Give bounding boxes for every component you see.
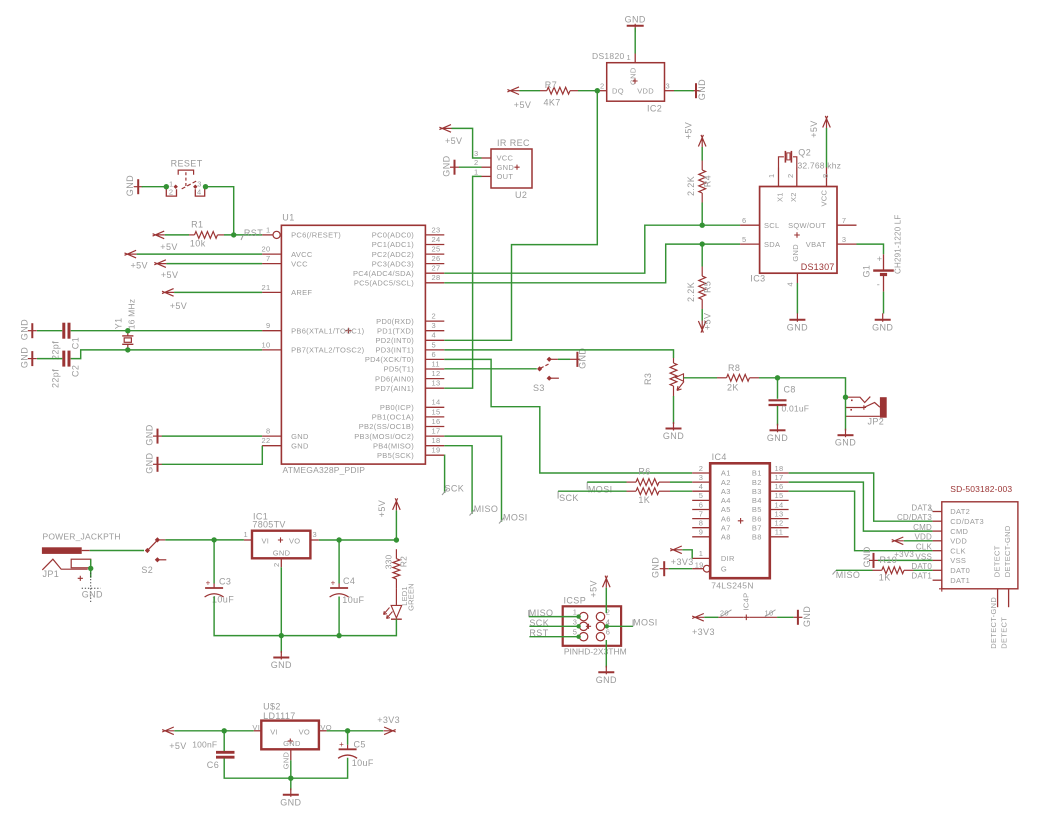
svg-text:11: 11 [775, 528, 783, 537]
svg-text:B2: B2 [752, 478, 762, 487]
svg-text:1: 1 [767, 174, 776, 178]
svg-text:PB3(MOSI/OC2): PB3(MOSI/OC2) [354, 432, 414, 441]
svg-text:2: 2 [474, 158, 478, 167]
power jack JP1 POWER_JACKPTH [42, 532, 121, 579]
junction reset right [203, 184, 208, 189]
svg-text:6: 6 [742, 216, 746, 225]
svg-text:PC3(ADC3): PC3(ADC3) [372, 259, 414, 268]
svg-text:SCL: SCL [764, 221, 780, 230]
wire +5V to VCC [166, 263, 262, 265]
IC4 pin 11 B8 stub [752, 528, 789, 542]
svg-text:GND: GND [872, 322, 893, 332]
svg-text:+3V3: +3V3 [692, 627, 715, 637]
svg-text:6: 6 [606, 628, 610, 637]
svg-text:GND: GND [145, 424, 155, 445]
wire U1 pin28 SCL net [444, 244, 702, 283]
wire gnd to IC4 G [669, 568, 693, 570]
svg-text:12: 12 [775, 519, 784, 528]
+5V supply arrow at AREF pin21 [162, 289, 187, 311]
U1 pin 17 PB3(MOSI/OC2) stub [354, 427, 444, 441]
pushbutton RESET [166, 158, 204, 196]
svg-text:18: 18 [432, 436, 441, 445]
wire rail to gnd [290, 778, 292, 790]
svg-text:C8: C8 [784, 385, 796, 395]
wire to IC3 SCL pin [702, 224, 740, 226]
U1 pin 24 PC1(ADC1) stub [372, 235, 445, 249]
svg-text:CMD: CMD [950, 527, 968, 536]
ICSP pad 1 [573, 608, 588, 621]
resistor network R6 1K lower [627, 488, 671, 505]
svg-text:A4: A4 [721, 496, 731, 505]
svg-text:SD-503182-003: SD-503182-003 [950, 484, 1012, 494]
net label SCK [442, 484, 464, 496]
wire IC4 B2 to SD CMD [789, 482, 933, 531]
wire R6a to IC4 A2 [670, 481, 692, 483]
svg-text:+5V: +5V [170, 301, 187, 311]
svg-text:VO: VO [299, 728, 310, 737]
svg-text:7: 7 [266, 254, 270, 263]
svg-text:+: + [877, 254, 882, 264]
wire C8 to gnd [777, 406, 779, 426]
U1 pin 22 GND stub [262, 436, 309, 450]
IC4 pin 7 A6 stub [692, 509, 730, 523]
svg-text:AVCC: AVCC [291, 250, 313, 259]
svg-text:2.2K: 2.2K [686, 282, 696, 302]
ICSP pad 2 [596, 608, 610, 621]
svg-text:R10: R10 [880, 555, 898, 565]
svg-text:CMD: CMD [913, 523, 932, 532]
svg-text:PB6(XTAL1/TOSC1): PB6(XTAL1/TOSC1) [291, 326, 364, 335]
resistor R4 2.2K [686, 147, 713, 203]
junction at C3 [211, 537, 216, 542]
IC4 pin 18 B1 stub [752, 464, 789, 478]
wire reset switch to RST net [206, 187, 234, 235]
switch S2 [141, 537, 166, 575]
ground symbol below C8 [767, 424, 788, 443]
+5V supply arrow at U$2 [162, 727, 186, 751]
IC4 pin 17 B2 stub [752, 473, 789, 487]
svg-text:ICSP: ICSP [564, 596, 587, 606]
svg-text:DETECT: DETECT [1000, 617, 1009, 649]
net label MISO at ICSP [529, 608, 554, 618]
svg-text:22pf: 22pf [51, 369, 61, 388]
svg-text:+5V: +5V [377, 500, 387, 517]
temperature sensor IC2 DS1820 body [592, 51, 674, 114]
svg-text:MOSI: MOSI [503, 513, 528, 523]
U1 pin 10 PB7(XTAL2/TOSC2) stub [262, 340, 365, 354]
svg-text:C3: C3 [219, 577, 231, 587]
wire +5V to IR VCC [452, 128, 482, 158]
svg-text:+5V: +5V [131, 261, 148, 271]
svg-text:CD/DAT3: CD/DAT3 [897, 513, 932, 522]
+5V supply arrow above R2 [377, 498, 400, 540]
+3V3 supply arrow at IC4P [692, 614, 715, 638]
svg-text:2: 2 [699, 464, 703, 473]
wire MOSI to R6a [587, 481, 626, 483]
SD pin DAT1 stub [933, 576, 971, 585]
U1 pin 18 PB4(MISO) stub [373, 436, 444, 450]
wire rail to gnd symbol [280, 636, 282, 653]
svg-text:3: 3 [699, 473, 703, 482]
svg-text:1: 1 [573, 608, 577, 617]
ICSP pad 4 [596, 617, 610, 630]
svg-text:G1: G1 [862, 265, 872, 278]
svg-text:5: 5 [432, 340, 436, 349]
svg-text:JP1: JP1 [43, 569, 60, 579]
svg-text:1: 1 [627, 53, 631, 62]
svg-text:8: 8 [266, 427, 270, 436]
svg-text:DAT2: DAT2 [911, 503, 932, 512]
svg-text:GND: GND [697, 79, 707, 100]
U1 pin 8 GND stub [262, 427, 309, 441]
IC4P power pins symbol [718, 593, 777, 620]
svg-text:+5V: +5V [160, 242, 177, 252]
wire U$2 gnd pin to rail [290, 760, 292, 778]
resistor R5 2.2K [686, 244, 713, 309]
wire XTAL2 to pin10 [128, 349, 262, 351]
U1 pin 4 PD2(INT0) stub [375, 331, 444, 345]
svg-text:VDD: VDD [637, 86, 654, 95]
svg-text:DIR: DIR [721, 554, 735, 563]
ICSP pad 5 [573, 628, 588, 641]
net label RST at ICSP [529, 628, 548, 638]
svg-text:C1: C1 [71, 337, 81, 349]
svg-text:PD7(AIN1): PD7(AIN1) [375, 384, 414, 393]
ground symbol at SD VSS [862, 546, 878, 568]
wire +3V3 to SD VDD [904, 540, 933, 542]
wire IC4 B3 to SD CLK [789, 491, 933, 551]
svg-text:GND: GND [651, 557, 661, 578]
svg-text:16: 16 [775, 482, 784, 491]
svg-text:13: 13 [432, 379, 441, 388]
svg-text:DETECT-GND: DETECT-GND [1003, 525, 1012, 577]
svg-text:GND: GND [283, 739, 301, 748]
svg-text:U2: U2 [515, 190, 527, 200]
SD pin DAT2 stub [933, 507, 971, 516]
IC4 pin 4 A3 stub [692, 482, 730, 496]
resistor R10 1K [873, 555, 914, 583]
net label DAT1 [911, 572, 932, 581]
svg-text:DS1820: DS1820 [592, 51, 625, 61]
voltage regulator U$2 LD1117 body [252, 702, 331, 770]
svg-text:GND: GND [596, 675, 617, 685]
svg-text:74LS245N: 74LS245N [711, 580, 754, 590]
svg-text:19: 19 [432, 446, 441, 455]
svg-text:16 MHz: 16 MHz [127, 299, 137, 330]
svg-text:MISO: MISO [836, 570, 861, 580]
ground symbol at C2 [19, 347, 37, 368]
svg-text:18: 18 [775, 464, 784, 473]
svg-text:13: 13 [775, 509, 784, 518]
svg-text:DETECT: DETECT [993, 545, 1002, 577]
svg-text:VI: VI [252, 723, 260, 732]
svg-text:3: 3 [842, 235, 846, 244]
junction rail at IC1 gnd [279, 633, 284, 638]
svg-text:VBAT: VBAT [806, 240, 826, 249]
IC4 pin 6 A5 stub [692, 500, 730, 514]
wire JP1 ground pin [88, 559, 93, 578]
svg-text:14: 14 [432, 398, 441, 407]
wire SCK to R6b [558, 490, 626, 492]
SD DETECT-GND bottom stub [989, 589, 998, 649]
wire C4 to rail [338, 597, 340, 636]
svg-text:R5: R5 [703, 281, 713, 293]
+5V supply arrow at ICSP [589, 576, 611, 598]
junction C5 [345, 728, 350, 733]
svg-text:GND: GND [291, 432, 309, 441]
wire RST to ICSP pad5 [529, 635, 580, 639]
svg-text:+3V3: +3V3 [671, 557, 694, 567]
svg-text:GND: GND [578, 348, 588, 369]
IC4 pin 5 A4 stub [692, 491, 730, 505]
RTC IC3 DS1307 body [740, 168, 856, 287]
microcontroller U1 ATMEGA328P_PDIP body [281, 213, 425, 476]
svg-text:PC6(/RESET): PC6(/RESET) [291, 231, 341, 240]
svg-text:GND: GND [125, 175, 135, 196]
svg-text:C2: C2 [71, 365, 81, 377]
resistor R8 2K [717, 363, 759, 393]
svg-text:GND: GND [625, 14, 646, 24]
junction C6 [222, 728, 227, 733]
ground symbol below U$2 [280, 788, 301, 807]
svg-text:+5V: +5V [589, 580, 599, 597]
SD pin VDD stub [933, 537, 968, 546]
svg-text:2: 2 [786, 174, 795, 178]
wire SCK from U1 pin19 [443, 455, 445, 493]
IC4 pin 19 G stub with bubble [692, 561, 727, 574]
svg-text:0.01uF: 0.01uF [782, 404, 810, 414]
net label MOSI at ICSP [633, 618, 658, 628]
svg-text:GND: GND [281, 751, 290, 769]
svg-text:U$2: U$2 [263, 702, 281, 712]
wire gnd to pin22 [162, 446, 262, 465]
svg-text:PD3(INT1): PD3(INT1) [375, 346, 414, 355]
wire +5V to AVCC [137, 253, 263, 255]
svg-text:GREEN: GREEN [407, 583, 416, 611]
svg-text:10: 10 [262, 340, 271, 349]
IC4 pin 14 B5 stub [752, 500, 789, 514]
svg-text:LD1117: LD1117 [263, 711, 296, 721]
svg-text:+5V: +5V [514, 100, 531, 110]
resistor R2 330 [384, 549, 409, 588]
+5V supply arrow at R1 [153, 231, 178, 252]
U1 pin 11 PD5(T1) stub [384, 359, 445, 373]
+5V supply arrow at R7 [507, 87, 531, 110]
ground symbol below ICSP [596, 666, 617, 685]
capacitor C2 22pf [51, 351, 81, 388]
svg-text:G: G [721, 565, 727, 574]
wire to IC3 SDA pin [702, 243, 740, 245]
svg-text:VCC: VCC [820, 189, 829, 206]
wire MISO to ICSP pad1 [529, 614, 581, 618]
U1 pin 3 PD1(TXD) stub [377, 321, 444, 335]
svg-text:B5: B5 [752, 505, 762, 514]
svg-text:VSS: VSS [950, 556, 966, 565]
svg-text:+: + [331, 579, 336, 588]
svg-text:A7: A7 [721, 523, 731, 532]
svg-text:VI: VI [270, 728, 278, 737]
svg-text:GND: GND [273, 549, 291, 558]
U1 pin 25 PC2(ADC2) stub [372, 245, 445, 259]
svg-text:PB2(SS/OC1B): PB2(SS/OC1B) [359, 422, 414, 431]
wire JP2 to gnd [845, 397, 847, 430]
wire C1 to XTAL1 node [71, 330, 128, 332]
svg-text:VDD: VDD [950, 537, 967, 546]
U1 pin 14 PB0(ICP) stub [380, 398, 444, 412]
svg-text:8: 8 [821, 174, 830, 178]
svg-text:10uF: 10uF [352, 758, 374, 768]
junction rail gnd [288, 776, 293, 781]
ground symbol below JP2 [835, 429, 856, 448]
svg-text:-: - [877, 280, 880, 290]
SD pin DAT0 stub [933, 566, 971, 575]
svg-text:SQW/OUT: SQW/OUT [788, 221, 826, 230]
svg-text:GND: GND [787, 322, 808, 332]
svg-text:R3: R3 [643, 373, 653, 385]
net label MOSI under U1 [499, 513, 528, 524]
svg-text:1: 1 [699, 549, 703, 558]
svg-text:5: 5 [699, 491, 703, 500]
svg-text:7: 7 [842, 216, 846, 225]
wire IC3 pin4 to gnd [796, 283, 798, 314]
U1 pin 19 PB5(SCK) stub [377, 446, 444, 460]
svg-text:CH291-1220 LF: CH291-1220 LF [893, 214, 902, 274]
svg-text:11: 11 [432, 359, 440, 368]
SD pin CD/DAT3 stub [933, 517, 984, 526]
svg-text:20: 20 [262, 245, 271, 254]
ground symbol above IC2 [625, 14, 646, 32]
svg-text:RESET: RESET [171, 158, 203, 168]
svg-text:PC2(ADC2): PC2(ADC2) [372, 250, 414, 259]
svg-text:GND: GND [497, 163, 515, 172]
wire gnd to C2 [37, 358, 62, 360]
svg-text:4: 4 [432, 331, 436, 340]
svg-text:GND: GND [442, 155, 452, 176]
svg-text:DQ: DQ [612, 86, 624, 95]
svg-text:3: 3 [432, 321, 436, 330]
wire +3V3 to IC4P pin20 [704, 616, 718, 618]
wire gnd to pin8 [162, 435, 262, 437]
svg-text:A5: A5 [721, 505, 731, 514]
ICSP pad 6 [596, 628, 610, 641]
U1 pin 12 PD6(AIN0) stub [375, 369, 444, 383]
junction SDA R5 [700, 241, 705, 246]
net label CD/DAT3 [897, 513, 932, 522]
svg-text:MOSI: MOSI [633, 618, 658, 628]
wire R6b to IC4 A3 [670, 490, 692, 492]
svg-text:21: 21 [262, 283, 271, 292]
svg-text:3: 3 [573, 617, 577, 626]
svg-text:B8: B8 [752, 533, 762, 542]
svg-text:2: 2 [272, 563, 281, 567]
ground symbol at S3 [570, 348, 588, 369]
junction RST node [231, 232, 236, 237]
U1 pin 27 PC4(ADC4/SDA) stub [353, 264, 444, 278]
svg-text:GND: GND [145, 453, 155, 474]
wire S3 to gnd [558, 358, 570, 360]
unrouted airwire to gnd at JP1 [78, 573, 103, 603]
wire U1 pin27 SDA net [444, 225, 702, 273]
voltage regulator IC1 7805TV body [244, 511, 319, 567]
SD pin CMD stub [933, 527, 969, 536]
net label SCK at IC4 [558, 491, 579, 503]
IC4 pin 15 B4 stub [752, 491, 789, 505]
net label DAT0 [911, 562, 932, 571]
wire R3 wiper to R8 [684, 377, 718, 379]
svg-text:IC4: IC4 [712, 452, 727, 462]
svg-text:X2: X2 [789, 192, 798, 202]
wire JP1 to S2 [90, 550, 144, 552]
svg-text:AREF: AREF [291, 288, 312, 297]
svg-text:4: 4 [785, 282, 794, 286]
junction XTAL1 [125, 328, 130, 333]
svg-text:2K: 2K [727, 383, 739, 393]
svg-text:14: 14 [775, 500, 784, 509]
svg-text:C5: C5 [354, 740, 366, 750]
svg-text:SCK: SCK [445, 484, 465, 494]
IC4 pin 2 A1 stub [692, 464, 730, 478]
svg-text:2: 2 [432, 312, 436, 321]
svg-text:+3V3: +3V3 [894, 550, 914, 559]
wire gnd to SD VSS [878, 559, 933, 561]
wire MISO to R10 [836, 569, 873, 571]
svg-text:PD6(AIN0): PD6(AIN0) [375, 374, 414, 383]
junction SCL R4 [700, 223, 705, 228]
svg-text:3: 3 [313, 530, 317, 539]
svg-text:4K7: 4K7 [544, 98, 561, 108]
svg-text:Y1: Y1 [114, 317, 124, 329]
wire C3 to rail [214, 597, 281, 636]
svg-text:B1: B1 [752, 469, 762, 478]
wire C2 to XTAL2 node [71, 350, 128, 359]
svg-text:27: 27 [432, 264, 441, 273]
svg-text:17: 17 [432, 427, 441, 436]
wire +5V to U$2 VI [174, 730, 253, 732]
junction R8 C8 [775, 375, 780, 380]
battery G1 CH291-1220LF [857, 214, 903, 291]
svg-text:R7: R7 [545, 80, 557, 90]
wire IC4 B1 to SD CD/DAT3 [789, 473, 933, 521]
svg-text:+5V: +5V [161, 270, 178, 280]
ground symbol below R3 [663, 422, 684, 441]
U1 pin 15 PB1(OC1A) stub [372, 407, 445, 421]
svg-text:+5V: +5V [703, 313, 713, 330]
svg-text:28: 28 [432, 273, 441, 282]
+3V3 supply arrow at IC4 DIR [670, 546, 693, 567]
svg-text:12: 12 [432, 369, 441, 378]
ground symbol below IC3 [787, 313, 808, 332]
svg-text:X1: X1 [776, 192, 785, 202]
wire XTAL1 to pin9 [128, 330, 262, 332]
svg-text:CLK: CLK [950, 546, 966, 555]
junction JP2 [843, 395, 848, 400]
wire U1 pin5 to R3 [444, 350, 673, 358]
svg-text:19: 19 [695, 561, 704, 570]
+5V supply arrow at IR receiver [439, 125, 462, 146]
net label RST [241, 228, 263, 240]
U1 pin 1 PC6(/RESET) stub [262, 225, 341, 239]
svg-text:25: 25 [432, 245, 441, 254]
svg-text:7805TV: 7805TV [252, 520, 285, 530]
+3V3 supply arrow at SD VDD [892, 537, 915, 559]
net label VDD [915, 533, 933, 542]
svg-text:PB0(ICP): PB0(ICP) [380, 403, 414, 412]
audio jack JP2 [846, 397, 887, 427]
svg-text:4: 4 [197, 188, 201, 197]
svg-text:VCC: VCC [497, 154, 514, 163]
U1 pin 16 PB2(SS/OC1B) stub [359, 417, 445, 431]
wire LED to rail [339, 619, 396, 635]
